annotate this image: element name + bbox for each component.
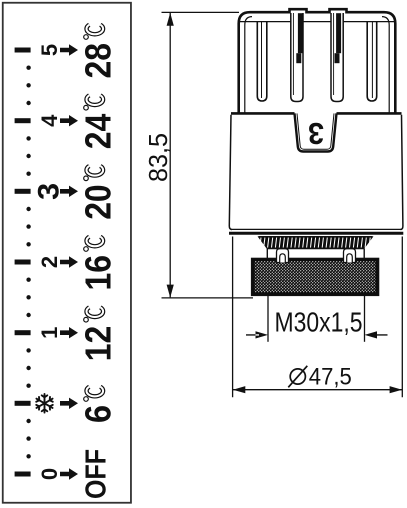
svg-text:1: 1	[37, 327, 62, 339]
dim 47,5 left arrowhead	[233, 386, 246, 393]
serrated flange	[259, 237, 373, 248]
svg-text:20: 20	[78, 184, 119, 220]
dim M30 right arrow	[365, 331, 388, 338]
dim 47,5 left extension line	[232, 237, 234, 398]
svg-text:3: 3	[308, 116, 324, 151]
svg-text:28: 28	[78, 43, 119, 79]
knob slot left	[291, 13, 303, 102]
knurled ring	[252, 259, 379, 296]
svg-text:M30x1,5: M30x1,5	[275, 306, 363, 337]
knob slot right	[331, 13, 343, 102]
dim 47,5 line	[233, 389, 402, 391]
diameter symbol	[290, 369, 305, 384]
body top edge	[231, 112, 402, 115]
clip tab left	[277, 249, 289, 263]
dim M30 left extension line	[267, 295, 269, 341]
knob inner wall lines	[245, 17, 389, 113]
neck lines	[267, 249, 364, 259]
svg-text:12: 12	[78, 326, 119, 362]
snowflake symbol	[36, 394, 53, 413]
dim 47,5 right extension line	[401, 237, 403, 398]
knob flute right	[367, 22, 377, 101]
svg-text:24: 24	[78, 114, 119, 150]
dim M30 right extension line	[364, 295, 366, 341]
dim 47,5 right arrowhead	[390, 386, 403, 393]
clip tab right	[344, 249, 356, 263]
knob flute left	[257, 22, 267, 101]
arrows	[60, 44, 78, 479]
svg-text:83,5: 83,5	[143, 133, 173, 182]
dim 83,5 arrow down	[167, 285, 174, 298]
body bottom thick line	[229, 232, 403, 235]
svg-text:16: 16	[78, 255, 119, 291]
body bottom thin line	[231, 228, 402, 230]
dim M30 left arrow	[246, 331, 268, 338]
dim 83,5 arrow up	[167, 13, 174, 26]
body notch outline	[295, 113, 337, 151]
svg-text:6: 6	[78, 405, 119, 423]
svg-text:0: 0	[37, 468, 62, 480]
body notch inner line	[297, 113, 334, 149]
knob outer outline	[239, 9, 396, 112]
svg-text:47,5: 47,5	[309, 363, 352, 390]
svg-text:2: 2	[37, 256, 62, 268]
dim 83,5 line	[169, 13, 171, 297]
strip border	[3, 3, 131, 503]
knob shoulder line	[240, 21, 395, 23]
tick marks column	[15, 48, 31, 477]
body side edges	[229, 115, 403, 230]
svg-text:4: 4	[37, 114, 62, 127]
dim 83,5 top extension line	[162, 11, 240, 13]
scale strip (rotated)	[3, 3, 131, 503]
svg-text:5: 5	[37, 44, 62, 56]
svg-text:OFF: OFF	[81, 449, 113, 499]
dim 83,5 bottom extension line	[162, 297, 254, 299]
